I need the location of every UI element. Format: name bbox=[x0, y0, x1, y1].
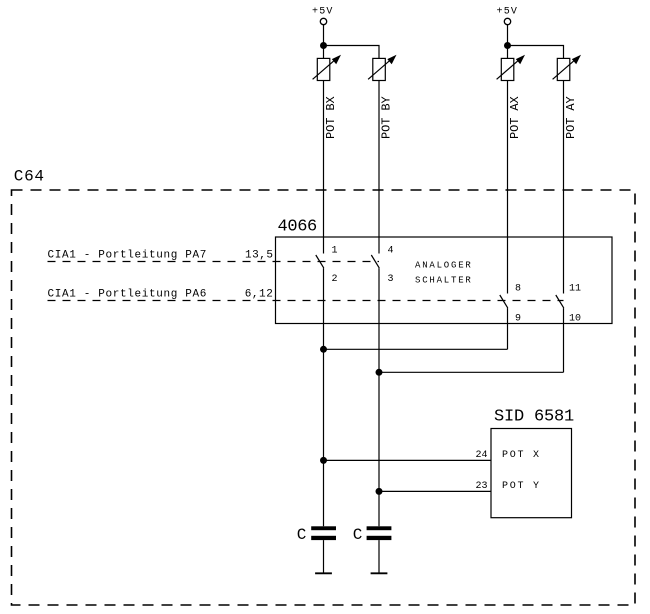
svg-text:11: 11 bbox=[569, 284, 581, 295]
dashed control wire PA6 bbox=[48, 300, 564, 302]
junction node (right +5V branch) bbox=[504, 42, 511, 49]
wire switch 2 output down to capacitor C2 bbox=[378, 268, 380, 526]
svg-text:C: C bbox=[297, 526, 307, 544]
svg-text:SID 6581: SID 6581 bbox=[494, 408, 574, 427]
svg-text:+5V: +5V bbox=[312, 7, 334, 18]
wire node to pin 10 bbox=[379, 371, 564, 373]
svg-text:POT X: POT X bbox=[502, 450, 541, 461]
capacitor C2 plates bbox=[367, 526, 392, 530]
svg-text:9: 9 bbox=[515, 314, 521, 325]
wire switch 3 output down bbox=[507, 308, 509, 349]
svg-text:POT AY: POT AY bbox=[564, 96, 578, 139]
svg-text:+5V: +5V bbox=[497, 7, 519, 18]
switch S3 blade bbox=[500, 295, 508, 308]
wire branch to POT BY bbox=[324, 46, 380, 59]
wire POT BY down to switch 2 bbox=[378, 81, 380, 254]
potentiometer POT BY arrow bbox=[368, 59, 392, 80]
wire from right +5V terminal down to junction bbox=[507, 25, 509, 46]
ground (C2) bbox=[371, 572, 388, 574]
node joining BY line with pin 10 bbox=[376, 369, 383, 376]
switch S2 blade bbox=[371, 255, 379, 268]
svg-text:13,5: 13,5 bbox=[245, 250, 274, 262]
svg-text:4: 4 bbox=[388, 246, 394, 257]
svg-text:CIA1 - Portleitung PA7: CIA1 - Portleitung PA7 bbox=[48, 250, 208, 262]
svg-text:2: 2 bbox=[332, 274, 338, 285]
IC U2 SID 6581 body bbox=[491, 429, 572, 518]
wire to SID pin 24 bbox=[324, 459, 492, 461]
wire POT BX down to switch 1 bbox=[323, 81, 325, 254]
svg-text:POT Y: POT Y bbox=[502, 481, 541, 492]
dashed control wire PA7 bbox=[48, 261, 380, 263]
wire POT AY down to switch 4 bbox=[563, 81, 565, 294]
wire from +5V terminal down to junction bbox=[323, 25, 325, 46]
node POT X wire bbox=[320, 457, 327, 464]
svg-text:3: 3 bbox=[388, 274, 394, 285]
potentiometer POT AX arrow bbox=[497, 59, 521, 80]
svg-text:8: 8 bbox=[515, 284, 521, 295]
capacitor C1 plates bbox=[311, 526, 336, 530]
svg-text:6,12: 6,12 bbox=[245, 289, 274, 301]
switch S1 blade bbox=[316, 255, 324, 268]
svg-text:POT AX: POT AX bbox=[508, 96, 522, 139]
switch S4 blade bbox=[556, 295, 564, 308]
svg-text:C64: C64 bbox=[14, 168, 45, 186]
svg-text:SCHALTER: SCHALTER bbox=[415, 275, 473, 285]
ground (C1) bbox=[315, 572, 332, 574]
svg-text:CIA1 - Portleitung PA6: CIA1 - Portleitung PA6 bbox=[48, 289, 208, 301]
svg-text:24: 24 bbox=[476, 450, 488, 461]
svg-text:1: 1 bbox=[332, 246, 338, 257]
svg-text:POT BY: POT BY bbox=[380, 96, 394, 139]
wire to SID pin 23 bbox=[379, 490, 491, 492]
+5V terminal circle (left pair) bbox=[320, 18, 326, 24]
potentiometer POT BX arrow bbox=[313, 59, 337, 80]
svg-text:23: 23 bbox=[476, 481, 488, 492]
svg-text:C: C bbox=[353, 526, 363, 544]
C64 dashed enclosure border bbox=[12, 190, 636, 605]
wire capacitor C1 to ground bbox=[323, 540, 325, 573]
wire junction to POT AX bbox=[507, 46, 509, 59]
wire node to pin 9 bbox=[324, 348, 508, 350]
wire capacitor C2 to ground bbox=[378, 540, 380, 573]
wire junction to POT BX bbox=[323, 46, 325, 59]
svg-text:ANALOGER: ANALOGER bbox=[415, 261, 473, 271]
potentiometer POT BX body bbox=[317, 58, 330, 80]
wire switch 1 output down to capacitor C1 bbox=[323, 268, 325, 526]
+5V terminal circle (right pair) bbox=[504, 18, 510, 24]
wire branch to POT AY bbox=[508, 46, 564, 59]
node joining BX line with pin 9 bbox=[320, 346, 327, 353]
wire switch 4 output down bbox=[563, 308, 565, 372]
potentiometer POT AX body bbox=[501, 58, 514, 80]
IC U1 4066 body bbox=[276, 237, 613, 324]
node POT Y wire bbox=[376, 488, 383, 495]
junction node (left +5V branch) bbox=[320, 42, 327, 49]
potentiometer POT AY body bbox=[557, 58, 570, 80]
potentiometer POT BY body bbox=[373, 58, 386, 80]
svg-text:10: 10 bbox=[569, 314, 581, 325]
svg-text:4066: 4066 bbox=[278, 218, 318, 237]
potentiometer POT AY arrow bbox=[553, 59, 577, 80]
svg-text:POT BX: POT BX bbox=[324, 96, 338, 139]
wire POT AX down to switch 3 bbox=[507, 81, 509, 294]
